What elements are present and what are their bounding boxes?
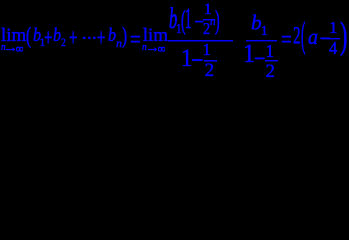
subscript n of bn: [116, 37, 122, 49]
denominator minus sign (fraction 2): [254, 46, 265, 72]
nested numerator 1 of 1/2 (fraction 1): [202, 41, 211, 58]
nested denominator 2 of 1/2^n: [203, 20, 210, 37]
plus sign 1: [44, 26, 52, 51]
numerator minus sign (fraction 1): [195, 11, 205, 33]
subscript arrow (first limit): [6, 47, 16, 52]
subscript n (second limit): [142, 43, 147, 54]
cdots dot 3: [91, 29, 97, 48]
subscript n (first limit): [1, 43, 6, 54]
equals sign 1: [130, 27, 141, 53]
opening parenthesis (result): [301, 18, 305, 54]
term b (b2): [53, 26, 61, 45]
nested numerator 1 of 1/2^n: [204, 2, 212, 18]
denominator minus sign (fraction 1): [191, 46, 203, 75]
minus sign (result): [320, 26, 331, 52]
subscript infinity (second limit): [158, 46, 165, 52]
nested fraction bar of 1/2^n: [203, 19, 215, 20]
denominator 4 of 1/4: [329, 39, 337, 57]
equals sign 2: [281, 27, 292, 53]
cdots dot 2: [86, 29, 92, 48]
closing parenthesis (result): [340, 18, 347, 56]
opening parenthesis of series: [26, 25, 31, 48]
fraction bar 2 (main): [246, 40, 277, 41]
numerator opening parenthesis (fraction 1): [181, 7, 186, 35]
numerator subscript 1 (fraction 2): [261, 25, 268, 39]
closing parenthesis of series: [122, 25, 127, 48]
variable a: [308, 26, 318, 48]
subscript 1 of b1: [39, 36, 45, 48]
formula canvas: blue equation on black (transparent-matte) background: [0, 0, 349, 80]
numerator b (fraction 2): [251, 12, 262, 33]
fraction bar of 1/4: [329, 38, 340, 39]
numerator subscript 1 (fraction 1): [176, 23, 182, 37]
subscript 2 of b2: [61, 36, 66, 48]
plus sign 2: [69, 26, 77, 51]
denominator digit 1 (fraction 2): [243, 41, 255, 67]
cdots dot 1: [81, 29, 87, 48]
subscript arrow (second limit): [148, 47, 158, 52]
denominator digit 1 (fraction 1): [181, 45, 192, 71]
fraction bar 1 (main): [168, 40, 233, 42]
numerator closing parenthesis (fraction 1): [215, 7, 220, 35]
numerator digit 1 (fraction 1): [185, 4, 192, 34]
plus sign 3: [97, 26, 105, 51]
nested denominator 2 of 1/2 (fraction 2): [266, 62, 276, 81]
nested numerator 1 of 1/2 (fraction 2): [265, 43, 274, 61]
nested denominator 2 of 1/2 (fraction 1): [205, 61, 215, 80]
subscript infinity (first limit): [16, 46, 23, 52]
coefficient 2: [293, 23, 301, 49]
numerator b (fraction 1): [169, 4, 177, 34]
nested fraction bar of 1/2 (fraction 2): [265, 60, 278, 62]
exponent n on 2: [210, 15, 216, 28]
numerator 1 of 1/4: [329, 19, 338, 36]
nested fraction bar of 1/2 (fraction 1): [204, 60, 217, 62]
limit operator lim (second): [143, 26, 168, 45]
term b (bn): [108, 26, 116, 45]
limit operator lim (first): [1, 26, 26, 45]
term b (b1): [33, 26, 41, 45]
